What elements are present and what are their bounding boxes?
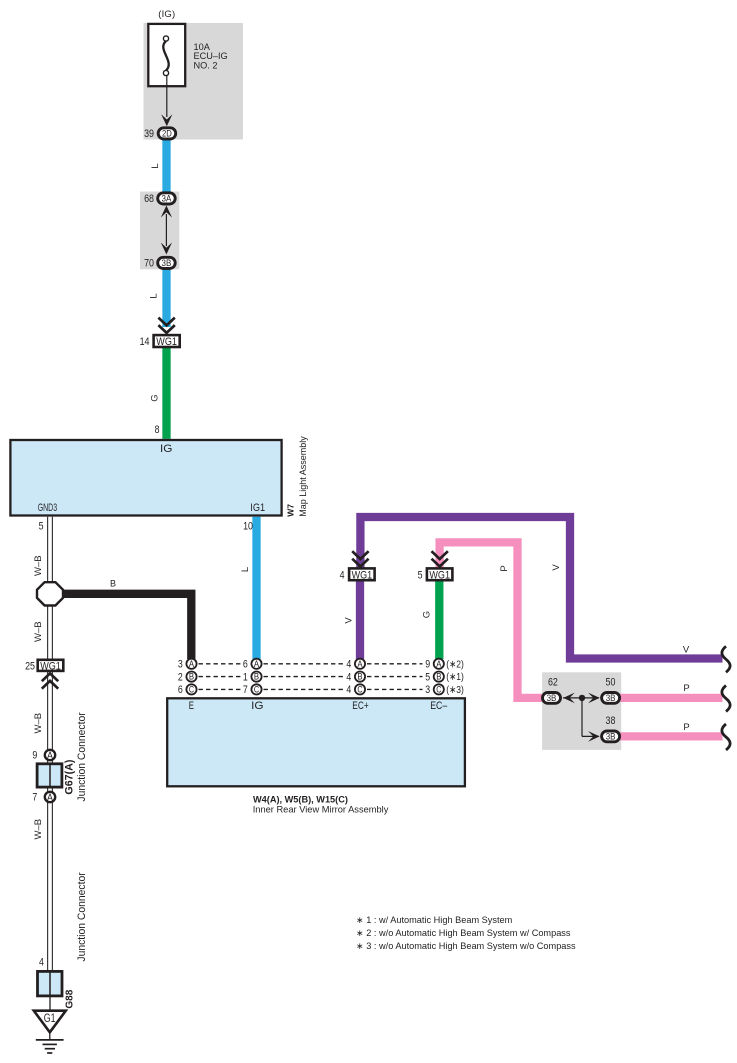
- svg-text:B: B: [436, 672, 441, 682]
- svg-text:G: G: [150, 394, 161, 401]
- svg-text:∗ 1 : w/ Automatic High Beam S: ∗ 1 : w/ Automatic High Beam System: [356, 915, 513, 925]
- svg-text:3A: 3A: [162, 194, 172, 204]
- svg-text:W–B: W–B: [33, 713, 44, 734]
- pin circles column E: [186, 659, 196, 695]
- svg-text:G88: G88: [65, 989, 76, 1008]
- svg-text:B: B: [110, 579, 116, 589]
- arrows between 3B connectors: [563, 697, 599, 699]
- svg-text:9: 9: [425, 659, 430, 671]
- wire L (blue, IG1 to mirror IG): [252, 517, 260, 659]
- svg-text:EC–: EC–: [430, 700, 448, 712]
- svg-text:A: A: [357, 659, 363, 669]
- connector 3B pin 50: [602, 693, 620, 704]
- connector 2D pin 39: [158, 128, 176, 139]
- wire between arrows: [165, 214, 167, 246]
- svg-text:3B: 3B: [162, 258, 172, 268]
- svg-text:38: 38: [606, 715, 616, 727]
- map light assembly W7 box: [10, 440, 281, 516]
- svg-text:WG1: WG1: [352, 569, 373, 581]
- svg-text:A: A: [189, 659, 195, 669]
- svg-text:B: B: [357, 672, 362, 682]
- svg-text:68: 68: [144, 193, 154, 205]
- svg-text:5: 5: [418, 569, 423, 581]
- svg-text:(∗1): (∗1): [446, 671, 464, 683]
- svg-text:P: P: [499, 565, 510, 571]
- svg-text:70: 70: [144, 257, 154, 269]
- svg-text:WG1: WG1: [40, 660, 61, 672]
- svg-text:9: 9: [32, 749, 37, 761]
- junction connector G67(A) box: [37, 764, 62, 787]
- connector WG1 pin 14: [154, 335, 180, 347]
- chevron arrows into WG1 14: [158, 318, 174, 333]
- break symbol P wire 2: [722, 724, 730, 750]
- svg-text:E: E: [189, 700, 194, 712]
- svg-text:W–B: W–B: [33, 819, 44, 840]
- svg-text:G: G: [422, 611, 433, 618]
- svg-text:Junction Connector: Junction Connector: [76, 712, 88, 802]
- svg-text:L: L: [150, 163, 161, 168]
- svg-text:IG: IG: [160, 443, 172, 455]
- svg-text:W4(A), W5(B), W15(C): W4(A), W5(B), W15(C): [253, 794, 348, 804]
- mirror pin row dashes A: [199, 664, 423, 690]
- svg-text:39: 39: [144, 128, 154, 140]
- svg-text:7: 7: [32, 791, 37, 803]
- arrow up to 3A: [161, 206, 172, 218]
- svg-text:V: V: [683, 645, 690, 656]
- chevron arrows out of WG1 25: [42, 673, 58, 688]
- svg-text:4: 4: [346, 659, 351, 671]
- svg-text:62: 62: [548, 676, 558, 688]
- svg-text:10: 10: [243, 521, 253, 533]
- fuse block shading (top gray box): [144, 23, 244, 140]
- connector 3A-3B shading (gray box): [140, 192, 179, 270]
- svg-text:8: 8: [155, 424, 160, 436]
- svg-text:W7: W7: [286, 504, 296, 517]
- svg-text:6: 6: [243, 659, 248, 671]
- svg-text:G67(A): G67(A): [64, 759, 76, 794]
- svg-text:3B: 3B: [606, 693, 616, 703]
- connector 3B pin 70: [158, 257, 176, 268]
- wire L (blue, 3B to WG1): [162, 269, 170, 327]
- svg-text:4: 4: [346, 671, 351, 683]
- junction octagon: [37, 582, 63, 605]
- svg-text:A: A: [47, 793, 53, 804]
- svg-text:4: 4: [340, 569, 345, 581]
- chevron arrows into WG1 5: [432, 551, 448, 566]
- ground triangle G1: [34, 1011, 66, 1033]
- wire G (green, WG1 to map light IG): [162, 347, 170, 439]
- svg-text:6: 6: [178, 684, 183, 696]
- break symbol P wire 1: [722, 686, 730, 712]
- svg-text:4: 4: [346, 684, 351, 696]
- svg-text:A: A: [436, 659, 442, 669]
- junction connector G88 box: [38, 971, 63, 996]
- svg-text:∗ 3 : w/o Automatic High Beam: ∗ 3 : w/o Automatic High Beam System w/o…: [356, 941, 576, 951]
- svg-text:∗ 2 : w/o Automatic High Beam: ∗ 2 : w/o Automatic High Beam System w/ …: [356, 928, 571, 938]
- wire P (pink, 3B 38 to right edge): [620, 732, 723, 740]
- svg-text:7: 7: [243, 684, 248, 696]
- wire G (green, WG1 5 to mirror EC-): [435, 581, 443, 659]
- svg-text:NO. 2: NO. 2: [194, 61, 218, 71]
- ground symbol: [49, 1034, 51, 1040]
- svg-text:WG1: WG1: [429, 569, 450, 581]
- svg-text:WG1: WG1: [156, 336, 177, 348]
- svg-text:W–B: W–B: [33, 621, 44, 642]
- svg-text:IG: IG: [251, 700, 263, 712]
- svg-text:(∗3): (∗3): [446, 684, 464, 696]
- svg-text:A: A: [47, 751, 53, 762]
- svg-text:Junction Connector: Junction Connector: [76, 872, 88, 962]
- arrow into 2D: [161, 114, 172, 126]
- svg-text:(∗2): (∗2): [446, 658, 464, 670]
- wire to ground G1: [49, 985, 51, 1010]
- svg-text:C: C: [189, 685, 194, 695]
- connector WG1 pin 4: [349, 568, 375, 580]
- svg-text:(IG): (IG): [158, 9, 175, 20]
- connector WG1 pin 5: [427, 568, 453, 580]
- svg-text:3B: 3B: [606, 732, 616, 742]
- connector 3B pin 62: [543, 693, 561, 704]
- wire fuse to 2D: [166, 76, 168, 118]
- svg-text:A: A: [254, 659, 260, 669]
- pin circles column EC-: [434, 659, 444, 695]
- svg-text:B: B: [254, 672, 259, 682]
- svg-text:25: 25: [25, 660, 35, 672]
- svg-text:Map Light Assembly: Map Light Assembly: [298, 436, 308, 517]
- svg-text:P: P: [683, 722, 689, 733]
- wire W-B (left double line): [48, 517, 53, 985]
- pin circles column IG: [251, 659, 261, 695]
- svg-text:V: V: [551, 564, 562, 571]
- connector 3B shading (right gray box): [542, 672, 621, 750]
- pin circles column EC+: [355, 659, 365, 695]
- svg-text:C: C: [254, 685, 259, 695]
- wire P (pink, 3B 50 to right edge): [620, 694, 723, 702]
- wire V (purple, WG1 4 to mirror EC+): [356, 581, 364, 659]
- mirror assembly box: [167, 698, 465, 786]
- svg-text:IG1: IG1: [250, 502, 265, 514]
- svg-text:50: 50: [606, 676, 616, 688]
- wire P (pink, loop to WG1 5): [440, 542, 544, 698]
- wire V (purple, WG1 4 loop to right edge): [360, 517, 722, 659]
- svg-text:V: V: [344, 617, 355, 624]
- connector 3B pin 38: [602, 731, 620, 742]
- connector 3A pin 68: [158, 193, 176, 204]
- svg-text:B: B: [189, 672, 194, 682]
- wire L (blue, fuse to 3A): [162, 140, 170, 195]
- arrow down to 3B: [161, 243, 172, 255]
- svg-text:3: 3: [178, 659, 183, 671]
- svg-text:C: C: [357, 685, 362, 695]
- fuse element: [163, 41, 168, 71]
- svg-text:4: 4: [39, 956, 44, 968]
- svg-text:2: 2: [178, 671, 183, 683]
- junction connector G67(A) pin 7: [45, 792, 55, 802]
- connector WG1 pin 25: [38, 660, 64, 671]
- svg-text:C: C: [436, 685, 441, 695]
- svg-text:L: L: [149, 293, 160, 298]
- fuse box 10A ECU-IG NO.2: [148, 24, 185, 86]
- svg-text:1: 1: [243, 671, 248, 683]
- break symbol V wire: [722, 646, 730, 672]
- svg-text:5: 5: [425, 671, 430, 683]
- svg-text:3B: 3B: [547, 693, 557, 703]
- svg-text:14: 14: [140, 336, 150, 348]
- svg-text:EC+: EC+: [352, 700, 368, 712]
- svg-text:2D: 2D: [162, 129, 172, 139]
- svg-text:W–B: W–B: [33, 555, 44, 576]
- svg-text:Inner Rear View Mirror Assembl: Inner Rear View Mirror Assembly: [253, 805, 389, 815]
- svg-text:P: P: [683, 683, 689, 694]
- svg-text:GND3: GND3: [38, 502, 57, 514]
- svg-text:5: 5: [39, 521, 44, 533]
- svg-text:L: L: [240, 567, 251, 572]
- chevron arrows into WG1 4: [352, 551, 368, 566]
- svg-text:G1: G1: [44, 1013, 56, 1025]
- wire B (black, octagon to mirror E): [62, 594, 191, 659]
- junction connector G67(A) pin 9: [45, 750, 55, 760]
- svg-text:3: 3: [425, 684, 430, 696]
